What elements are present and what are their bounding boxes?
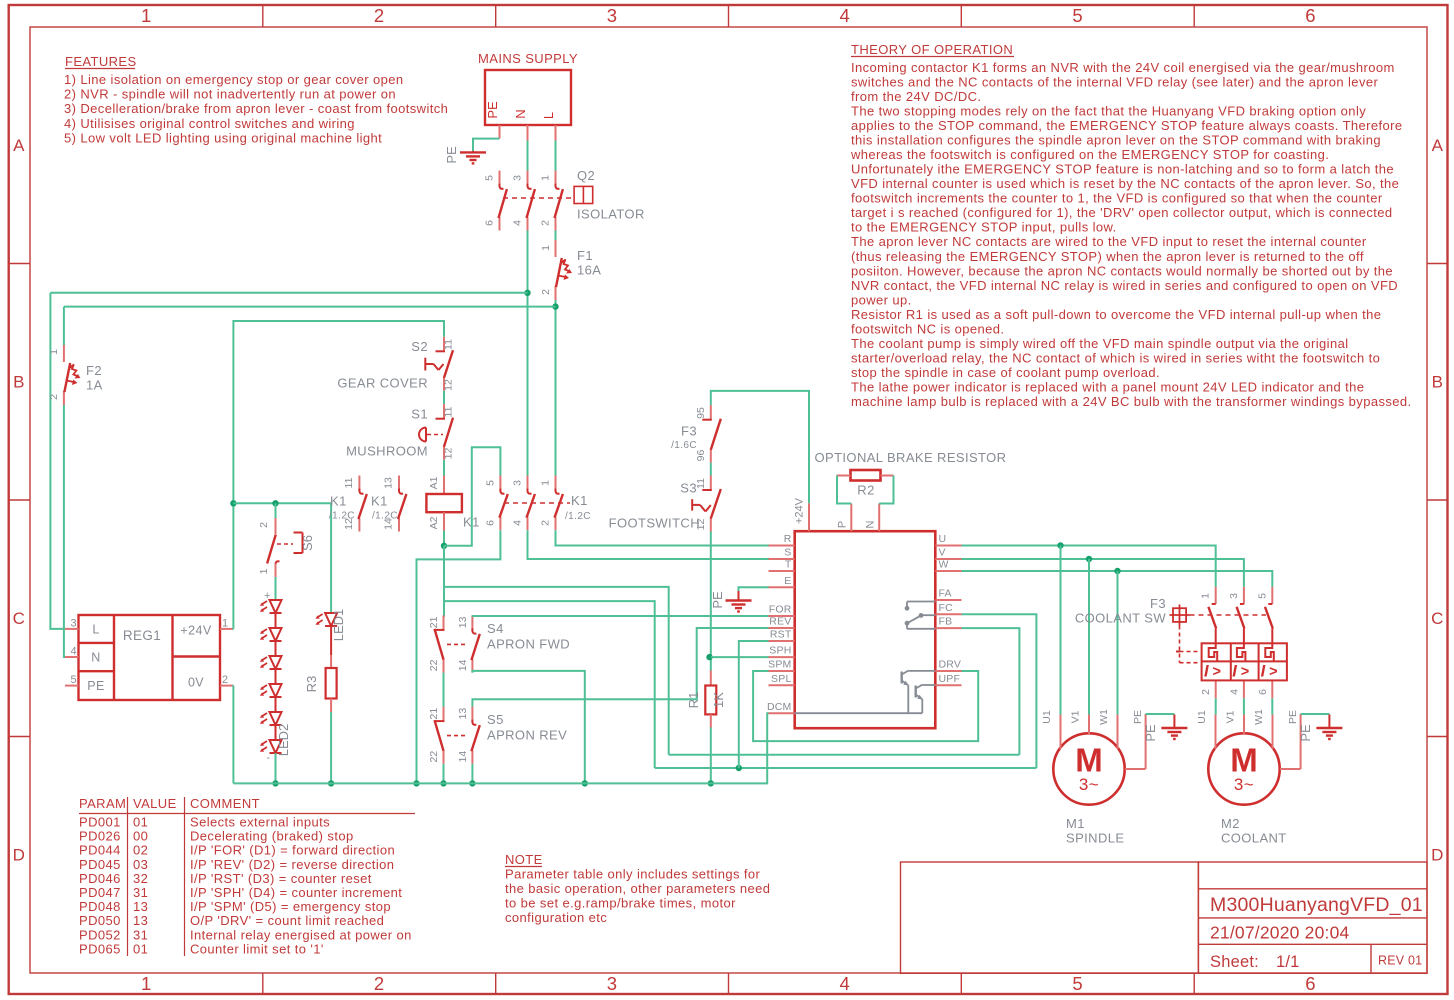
svg-text:SPH: SPH: [769, 645, 791, 657]
VFD pin FB: [935, 627, 961, 629]
fuse F1: [555, 240, 557, 257]
svg-text:F3: F3: [1150, 596, 1166, 611]
wire S6 to LED2: [275, 577, 277, 600]
svg-text:Q2: Q2: [577, 168, 595, 183]
wire pole A to 0V drop: [417, 530, 501, 783]
svg-text:4) Utilisises original control: 4) Utilisises original control switches …: [64, 116, 355, 131]
svg-text:The coolant pump is simply wir: The coolant pump is simply wired off the…: [851, 336, 1349, 351]
svg-text:21: 21: [428, 616, 440, 628]
svg-text:N: N: [91, 651, 100, 665]
wire S4-13 FOR row: [472, 614, 768, 617]
svg-text:NOTE: NOTE: [505, 852, 543, 867]
wire V to M1: [1088, 559, 1090, 715]
wire R2 to N: [879, 476, 893, 504]
svg-text:1/1: 1/1: [1276, 953, 1300, 971]
mains supply box: [485, 70, 571, 125]
VFD pin E: [769, 586, 795, 588]
svg-text:S: S: [784, 547, 791, 559]
svg-text:11: 11: [343, 477, 355, 488]
svg-text:PE: PE: [87, 679, 104, 693]
isolator Q2 actuator box: [574, 186, 593, 203]
svg-text:3: 3: [70, 618, 77, 630]
svg-text:PE: PE: [1143, 724, 1158, 742]
svg-text:switches and the NC contacts o: switches and the NC contacts of the inte…: [851, 75, 1378, 90]
isolator dashed link: [503, 197, 572, 199]
svg-text:4: 4: [512, 520, 524, 526]
svg-text:W1: W1: [1253, 709, 1265, 725]
svg-text:A1: A1: [428, 476, 440, 489]
switch S5 NO contact: [471, 707, 473, 723]
wire overload to M2 V: [1243, 698, 1245, 714]
overload F3 heater box: [1202, 643, 1287, 680]
switch S5 NC contact: [443, 707, 445, 721]
svg-text:PE: PE: [1298, 724, 1313, 742]
svg-text:PD001: PD001: [79, 815, 121, 830]
svg-text:PD046: PD046: [79, 871, 121, 886]
coolant switch actuator: [1173, 608, 1186, 622]
VFD internal transistor UPF: [915, 686, 917, 698]
VFD pin +24V: [808, 503, 810, 531]
wire A2 row to FB drop: [444, 587, 669, 755]
svg-text:02: 02: [133, 843, 148, 858]
VFD pin DRV: [935, 670, 961, 672]
svg-text:stop the spindle in case of co: stop the spindle in case of coolant pump…: [851, 365, 1160, 380]
PE ground at VFD E: [739, 587, 769, 591]
svg-text:+24V: +24V: [794, 497, 806, 524]
junction: [552, 303, 558, 309]
wire F3 to S3: [710, 463, 712, 476]
VFD internal DCM rail: [795, 712, 923, 714]
svg-text:2: 2: [48, 394, 60, 400]
VFD pin S: [769, 558, 795, 560]
svg-text:3: 3: [607, 5, 618, 26]
VFD pin DCM: [769, 712, 795, 714]
svg-text:configuration etc: configuration etc: [505, 910, 607, 925]
svg-text:K1: K1: [330, 494, 347, 509]
svg-text:5: 5: [70, 674, 77, 686]
svg-text:I: I: [1232, 663, 1237, 681]
svg-text:2: 2: [540, 289, 552, 295]
relay contact K1 aux 13/14: [398, 476, 400, 492]
svg-text:>: >: [1213, 664, 1221, 680]
wire S1 to coil A1: [443, 460, 445, 476]
svg-text:K1: K1: [371, 494, 388, 509]
VFD pin REV: [769, 627, 795, 629]
column tick 5: [1193, 5, 1195, 27]
svg-text:14: 14: [457, 659, 469, 671]
overload heater element: [1209, 643, 1218, 661]
svg-text:6: 6: [1257, 689, 1269, 695]
svg-text:-: -: [267, 752, 271, 764]
row tick 3: [9, 736, 30, 738]
svg-text:Unfortunately ithe EMERGENCY S: Unfortunately ithe EMERGENCY STOP featur…: [851, 162, 1394, 177]
svg-text:5: 5: [1256, 593, 1268, 599]
svg-text:Counter limit set to '1': Counter limit set to '1': [190, 941, 324, 956]
svg-text:S4: S4: [487, 621, 504, 636]
svg-text:MUSHROOM: MUSHROOM: [346, 444, 428, 459]
svg-text:6: 6: [1305, 973, 1316, 994]
wire left N down to REG1 L: [50, 293, 65, 629]
VFD pin V: [935, 558, 961, 560]
svg-text:OPTIONAL BRAKE RESISTOR: OPTIONAL BRAKE RESISTOR: [815, 450, 1007, 465]
title block: [901, 862, 1199, 973]
wire S5-14 to bus: [471, 764, 473, 784]
row tick 2: [9, 499, 30, 501]
svg-text:PD048: PD048: [79, 899, 121, 914]
svg-text:NVR contact, the VFD internal: NVR contact, the VFD internal NC relay i…: [851, 278, 1398, 293]
wire LED2 to bus: [275, 753, 277, 783]
svg-text:/1.2C: /1.2C: [329, 511, 355, 522]
wire row to left N: [50, 292, 527, 294]
svg-text:ISOLATOR: ISOLATOR: [577, 207, 645, 222]
svg-text:4: 4: [840, 973, 851, 994]
contactor K1 main pole 5/6: [499, 476, 501, 492]
svg-text:1: 1: [258, 568, 270, 574]
REG1 pin 5: [65, 685, 79, 687]
svg-text:FOOTSWITCH: FOOTSWITCH: [609, 516, 700, 531]
svg-text:21/07/2020 20:04: 21/07/2020 20:04: [1210, 923, 1350, 943]
svg-text:PARAM: PARAM: [79, 796, 126, 811]
VFD pin N: [878, 504, 880, 532]
svg-text:2: 2: [374, 5, 385, 26]
svg-text:RST: RST: [770, 629, 792, 641]
svg-text:4: 4: [1228, 689, 1240, 695]
svg-text:1: 1: [222, 618, 229, 630]
wire pole B to VFD S: [528, 530, 769, 559]
svg-text:FB: FB: [939, 616, 953, 628]
wire W row: [962, 571, 1273, 587]
svg-text:Internal relay energised at po: Internal relay energised at power on: [190, 927, 412, 942]
svg-text:Resistor R1 is used as a soft: Resistor R1 is used as a soft pull-down …: [851, 307, 1381, 322]
wire U to M1: [1060, 546, 1062, 715]
svg-text:FOR: FOR: [769, 604, 792, 616]
svg-text:Decelerating (braked) stop: Decelerating (braked) stop: [190, 829, 354, 844]
junction: [272, 500, 278, 506]
resistor R1 1K: [710, 671, 712, 686]
svg-text:M300HuanyangVFD_01: M300HuanyangVFD_01: [1210, 894, 1423, 916]
svg-text:P: P: [837, 521, 849, 528]
svg-text:6: 6: [484, 520, 496, 526]
LED2 chain: [270, 600, 282, 613]
svg-text:+24V: +24V: [180, 624, 211, 638]
svg-text:A: A: [1432, 136, 1444, 155]
power supply REG1 box: [79, 615, 221, 700]
wire PE to ground: [473, 139, 500, 152]
svg-text:S2: S2: [411, 339, 428, 354]
svg-text:12: 12: [443, 379, 455, 391]
svg-text:N: N: [865, 520, 877, 528]
svg-text:VALUE: VALUE: [133, 796, 177, 811]
svg-text:3~: 3~: [1079, 775, 1099, 794]
svg-text:FC: FC: [939, 602, 954, 614]
svg-text:machine lamp bulb is replaced: machine lamp bulb is replaced with a 24V…: [851, 394, 1412, 409]
svg-text:V1: V1: [1225, 710, 1237, 723]
svg-text:Selects external inputs: Selects external inputs: [190, 815, 330, 830]
svg-text:1: 1: [540, 245, 552, 251]
svg-text:I/P 'FOR' (D1) = forward direc: I/P 'FOR' (D1) = forward direction: [190, 843, 395, 858]
VFD pin UPF: [935, 684, 961, 686]
svg-text:APRON REV: APRON REV: [487, 728, 567, 743]
coil A2 pin: [443, 512, 445, 530]
wire NC chain row: [444, 601, 655, 768]
svg-text:DRV: DRV: [939, 659, 962, 671]
svg-text:power up.: power up.: [851, 292, 912, 307]
wire isolator to F1: [555, 231, 557, 241]
overload heater element: [1265, 643, 1274, 661]
svg-text:R3: R3: [304, 676, 319, 693]
svg-text:PD052: PD052: [79, 927, 121, 942]
svg-text:V: V: [939, 547, 946, 559]
svg-text:W: W: [939, 559, 949, 571]
svg-text:F2: F2: [86, 363, 102, 378]
svg-text:I/P 'REV' (D2) = reverse direc: I/P 'REV' (D2) = reverse direction: [190, 857, 394, 872]
svg-text:PE: PE: [444, 146, 459, 164]
contactor K1 main pole 1/2: [555, 476, 557, 492]
svg-text:3) Decelleration/brake from ap: 3) Decelleration/brake from apron lever …: [64, 101, 448, 116]
isolator Q2 pole 3/4: [527, 171, 529, 187]
PE ground symbol: [472, 151, 474, 153]
svg-text:F3: F3: [681, 424, 697, 439]
svg-text:VFD internal counter is used w: VFD internal counter is used which is re…: [851, 176, 1399, 191]
wire DRV-SPM loop: [753, 671, 978, 741]
svg-text:13: 13: [133, 913, 148, 928]
row tick 1: [9, 263, 30, 265]
svg-text:B: B: [13, 373, 25, 392]
svg-text:LED1: LED1: [331, 609, 346, 642]
contactor K1 main pole 3/4: [527, 476, 529, 492]
svg-text:96: 96: [695, 450, 707, 462]
junction: [524, 290, 530, 296]
motor M1: [1053, 733, 1124, 804]
svg-text:13: 13: [457, 616, 469, 628]
wire S4-22 to S5-21: [443, 673, 445, 707]
svg-text:PE: PE: [485, 101, 500, 119]
fuse F2: [63, 345, 65, 362]
wire F2 to REG1 N: [64, 405, 65, 657]
switch S1 mushroom: [443, 404, 445, 418]
wire REG1 0V to bus: [232, 686, 234, 784]
svg-text:5: 5: [1072, 5, 1083, 26]
svg-text:Sheet:: Sheet:: [1210, 953, 1259, 971]
svg-text:to the EMERGENCY STOP input, p: to the EMERGENCY STOP input, pulls low.: [851, 220, 1117, 235]
REG1 pin 3: [65, 628, 79, 630]
VFD pin P: [850, 504, 852, 532]
svg-text:13: 13: [383, 477, 395, 489]
junction: [230, 500, 236, 506]
VFD pin RST: [769, 640, 795, 642]
motor M2 PE: [1280, 768, 1301, 770]
svg-text:S1: S1: [411, 407, 428, 422]
overload F3 pole 1/2: [1215, 587, 1217, 604]
svg-text:>: >: [1241, 664, 1249, 680]
switch S4 NO contact: [471, 615, 473, 631]
svg-text:+: +: [264, 590, 271, 602]
svg-text:1: 1: [48, 349, 60, 355]
svg-text:COMMENT: COMMENT: [190, 796, 260, 811]
VFD pin SPH: [769, 656, 795, 658]
wire S3 to SPH: [710, 532, 712, 671]
svg-text:footswitch NC is opened.: footswitch NC is opened.: [851, 321, 1004, 336]
wire L to isolator: [555, 141, 557, 171]
svg-text:2: 2: [540, 520, 552, 526]
svg-text:U1: U1: [1196, 710, 1208, 724]
S5 dashed link: [447, 735, 468, 737]
wire overload to M2 U: [1215, 698, 1217, 714]
svg-text:COOLANT: COOLANT: [1221, 831, 1287, 846]
svg-text:11: 11: [443, 406, 455, 417]
wire +24V rail to F3: [711, 391, 809, 503]
wire pole C to VFD R: [556, 530, 769, 545]
column tick 1: [262, 5, 264, 27]
junction: [441, 543, 447, 549]
wire +24V riser: [233, 321, 444, 629]
svg-text:C: C: [1431, 609, 1444, 628]
svg-text:L: L: [92, 623, 99, 637]
footswitch S3: [710, 476, 712, 490]
svg-text:2: 2: [258, 522, 270, 528]
svg-text:COOLANT SW: COOLANT SW: [1075, 611, 1166, 626]
svg-text:MAINS SUPPLY: MAINS SUPPLY: [478, 51, 578, 66]
svg-text:FA: FA: [939, 588, 952, 600]
svg-text:2) NVR - spindle will not inad: 2) NVR - spindle will not inadvertently …: [64, 87, 396, 102]
wire LED1 to R3: [330, 626, 332, 655]
VFD pin T: [769, 570, 795, 572]
svg-text:14: 14: [457, 751, 469, 763]
overload heater element: [1237, 643, 1246, 661]
VFD pin SPM: [769, 670, 795, 672]
svg-text:to be set e.g.ramp/brake times: to be set e.g.ramp/brake times, motor: [505, 896, 736, 911]
svg-text:1: 1: [1200, 593, 1212, 599]
svg-text:R2: R2: [857, 483, 874, 498]
svg-text:I/P 'SPM' (D5) = emergency sto: I/P 'SPM' (D5) = emergency stop: [190, 899, 391, 914]
svg-text:posiiton. However, because the: posiiton. However, because the apron NC …: [851, 263, 1393, 278]
switch S2 gear cover: [443, 337, 445, 351]
wire +24 row to S6 and LED1: [233, 503, 331, 613]
wire row to left L: [64, 306, 556, 308]
svg-text:/1.2C: /1.2C: [372, 511, 398, 522]
wire R2 to P: [837, 476, 851, 504]
svg-text:4: 4: [512, 220, 524, 226]
svg-text:M: M: [1230, 742, 1258, 779]
svg-text:1: 1: [540, 480, 552, 486]
svg-text:PD065: PD065: [79, 941, 121, 956]
svg-text:3: 3: [512, 175, 524, 181]
VFD pin R: [769, 545, 795, 547]
wire U row: [962, 546, 1216, 587]
resistor R3: [330, 655, 332, 668]
svg-text:31: 31: [133, 885, 148, 900]
svg-text:S6: S6: [300, 535, 315, 551]
svg-text:F1: F1: [577, 248, 593, 263]
svg-text:32: 32: [133, 871, 148, 886]
svg-text:REG1: REG1: [123, 628, 161, 643]
wire RST drop: [739, 641, 769, 768]
VFD pin SPL: [769, 684, 795, 686]
wire W to M1: [1117, 571, 1119, 715]
svg-text:PE: PE: [1132, 710, 1144, 724]
svg-text:D: D: [1431, 846, 1444, 865]
wire V row: [962, 559, 1244, 587]
overload F3 pole 5/6: [1271, 587, 1273, 604]
svg-text:1: 1: [141, 973, 152, 994]
svg-text:1A: 1A: [86, 378, 103, 393]
VFD pin FOR: [769, 615, 795, 617]
svg-text:O/P 'DRV' = count limit reache: O/P 'DRV' = count limit reached: [190, 913, 384, 928]
wire left L down to F2: [63, 307, 65, 345]
wire row FB-coil: [669, 754, 1020, 756]
VFD pin U: [935, 545, 961, 547]
svg-text:2: 2: [222, 674, 229, 686]
VFD internal transistor DRV: [901, 672, 903, 684]
svg-text:N: N: [513, 109, 528, 118]
wire DCM to bus: [233, 713, 768, 783]
svg-text:PE: PE: [710, 591, 725, 609]
wire overload to M2 W: [1271, 698, 1273, 714]
svg-text:DCM: DCM: [767, 701, 792, 713]
svg-text:0V: 0V: [188, 676, 204, 690]
svg-text:6: 6: [1305, 5, 1316, 26]
svg-text:Incoming contactor K1 forms an: Incoming contactor K1 forms an NVR with …: [851, 60, 1395, 75]
svg-text:13: 13: [457, 708, 469, 720]
contactor coil K1 A1 pin: [443, 476, 445, 495]
svg-text:SPL: SPL: [771, 673, 791, 685]
svg-text:FEATURES: FEATURES: [65, 54, 137, 69]
svg-text:GEAR COVER: GEAR COVER: [337, 376, 428, 391]
svg-text:W1: W1: [1098, 709, 1110, 725]
svg-text:R: R: [784, 533, 792, 545]
isolator Q2 pole 5/6: [499, 171, 501, 187]
svg-text:M2: M2: [1221, 816, 1240, 831]
svg-text:5: 5: [1072, 973, 1083, 994]
svg-text:SPINDLE: SPINDLE: [1066, 831, 1124, 846]
svg-text:01: 01: [133, 941, 148, 956]
svg-text:1K: 1K: [711, 692, 726, 708]
svg-text:11: 11: [443, 339, 455, 350]
svg-text:T: T: [785, 559, 792, 571]
svg-text:2: 2: [1200, 689, 1212, 695]
column tick 2: [495, 5, 497, 27]
svg-text:LED2: LED2: [276, 724, 291, 757]
svg-text:L: L: [541, 112, 556, 119]
column tick 3: [728, 5, 730, 27]
svg-text:I/P 'SPH' (D4) = counter incre: I/P 'SPH' (D4) = counter increment: [190, 885, 402, 900]
wire A2 chain down: [443, 546, 445, 617]
overload contact F3 /1.6C: [710, 405, 712, 419]
svg-text:4: 4: [70, 646, 77, 658]
svg-text:PD047: PD047: [79, 885, 121, 900]
wire row RST-FC: [655, 767, 1037, 769]
svg-text:5: 5: [484, 175, 496, 181]
svg-text:footswitch increments the coun: footswitch increments the counter to 1, …: [851, 191, 1383, 206]
svg-text:(thus releasing the EMERGENCY: (thus releasing the EMERGENCY STOP) when…: [851, 249, 1364, 264]
svg-text:PD044: PD044: [79, 843, 121, 858]
column tick 4: [960, 5, 962, 27]
svg-text:PD050: PD050: [79, 913, 121, 928]
svg-text:6: 6: [484, 220, 496, 226]
svg-text:The lathe power indicator is r: The lathe power indicator is replaced wi…: [851, 379, 1364, 394]
svg-text:Parameter table only includes: Parameter table only includes settings f…: [505, 867, 761, 882]
svg-text:PE: PE: [1287, 710, 1299, 724]
svg-text:22: 22: [428, 659, 440, 671]
svg-text:V1: V1: [1070, 710, 1082, 723]
wire FC chain: [962, 614, 1037, 768]
svg-text:PD026: PD026: [79, 829, 121, 844]
wire SPH row: [711, 656, 769, 658]
svg-text:3: 3: [512, 480, 524, 486]
wire S5-22 to bus: [443, 764, 445, 784]
svg-text:PD045: PD045: [79, 857, 121, 872]
svg-text:2: 2: [374, 973, 385, 994]
